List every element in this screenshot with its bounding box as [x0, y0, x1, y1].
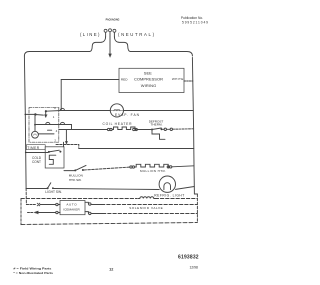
connector X [37, 203, 40, 206]
svg-text:12: 12 [109, 267, 113, 271]
terminal bump on heater-out [46, 122, 50, 124]
wire line-side from plug to left bus [24, 37, 105, 56]
cold control bellows [49, 155, 56, 164]
power cord plug prongs [104, 29, 116, 37]
wire compressor to neutral bus [184, 80, 193, 82]
wire light switch to bulb [54, 189, 159, 190]
compressor box [119, 68, 184, 92]
ground wire with arrow [109, 32, 111, 54]
motor return long wire to neutral bus [79, 148, 194, 150]
svg-text:RED: RED [121, 77, 128, 81]
svg-text:REFRIG. LIGHT: REFRIG. LIGHT [154, 194, 184, 198]
motor return row [56, 145, 79, 149]
svg-text:(LINE): (LINE) [80, 32, 100, 37]
defrost timer box [29, 107, 59, 142]
timer motor [32, 131, 39, 138]
svg-text:12/98: 12/98 [189, 266, 198, 270]
defrost therm connector circles [164, 128, 166, 130]
node bus junction [25, 114, 27, 116]
field wiring loop left vertical [20, 199, 22, 225]
wire switch to mullion heater [84, 167, 130, 170]
mullion heater element [135, 164, 170, 167]
svg-text:2: 2 [54, 106, 56, 110]
icemaker feed row upper [26, 204, 35, 206]
svg-text:HTR. SW.: HTR. SW. [69, 178, 82, 182]
connector arrow [34, 211, 39, 214]
icemaker right bracket upper [85, 202, 88, 204]
wire to defrost therm [137, 129, 150, 131]
svg-text:SEE: SEE [144, 71, 152, 76]
defrost therm sensing bracket [152, 131, 165, 140]
wire bus to cold control [26, 152, 48, 154]
timer heater-out jog [35, 125, 72, 130]
evap fan row wire [46, 110, 110, 113]
svg-text:EVAP. FAN: EVAP. FAN [115, 113, 140, 117]
left bus (line) [24, 56, 26, 188]
svg-text:COIL HEATER: COIL HEATER [103, 122, 133, 126]
solenoid row left [21, 198, 137, 200]
svg-text:THERM.: THERM. [151, 123, 163, 127]
wire to compressor box [61, 79, 119, 81]
svg-text:MULLION HTR.: MULLION HTR. [140, 169, 166, 173]
icemaker feed row lower [28, 212, 34, 214]
wire neutral-side from plug to right bus [114, 37, 192, 56]
node timer motor tap [34, 124, 36, 126]
coil heater element [112, 127, 136, 130]
icemaker terminal lower-right [89, 212, 91, 214]
evap fan motor [110, 104, 123, 117]
terminal bump on fan row [60, 108, 64, 110]
wire compressor feed drop [60, 80, 62, 111]
mullion switch row [64, 170, 75, 172]
solenoid valve coil [138, 197, 155, 199]
icemaker terminal upper-right [89, 203, 91, 205]
refrigerator light bulb [159, 176, 175, 192]
svg-text:LIGHT SW.: LIGHT SW. [45, 190, 62, 194]
pin 4 contact stub [48, 129, 52, 131]
svg-text:SOLENOID VALVE: SOLENOID VALVE [129, 206, 163, 210]
svg-text:WIRING: WIRING [141, 83, 157, 88]
defrost therm contacts [151, 129, 153, 131]
light row from bus [26, 188, 47, 190]
right bus jog to lower dashed vertical [194, 193, 197, 195]
svg-text:4: 4 [56, 129, 58, 133]
svg-text:# = Field Wiring Parts: # = Field Wiring Parts [13, 267, 51, 271]
svg-text:CONT: CONT [32, 160, 41, 164]
timer contact drop with arrow [45, 112, 47, 115]
coil heater left terminal [107, 128, 109, 130]
right lower bus dashed [196, 194, 198, 223]
mullion heater switch [74, 169, 76, 171]
svg-text:1: 1 [53, 115, 55, 119]
svg-text:ICEMAKER: ICEMAKER [63, 208, 80, 212]
svg-text:Publication No.: Publication No. [181, 16, 203, 20]
left bus lower dashed to icemaker feed [25, 188, 27, 204]
timer motor feed [34, 115, 36, 132]
auto icemaker box [60, 201, 85, 215]
node timer contact 1 [45, 110, 47, 112]
node timer common [34, 113, 36, 115]
svg-text:AUTO: AUTO [66, 202, 77, 206]
svg-text:PACKAGING: PACKAGING [106, 17, 120, 21]
cold control contacts [48, 151, 50, 153]
wire mullion heater to neutral bus [172, 166, 194, 167]
svg-text:6193832: 6193832 [178, 255, 199, 261]
icemaker terminal lower-left [56, 211, 58, 213]
svg-text:TIMER: TIMER [27, 146, 40, 150]
bottom field wiring row [21, 223, 197, 225]
svg-text:5995211049: 5995211049 [182, 21, 208, 25]
wire defrost therm to neutral bus [173, 128, 194, 130]
cold control top link [63, 142, 65, 147]
timer motor return drop with arrow [65, 130, 67, 142]
svg-text:2: 2 [54, 138, 56, 142]
svg-text:* = Non-Illustrated Parts: * = Non-Illustrated Parts [13, 271, 53, 275]
fan row wire to neutral bus [124, 110, 194, 112]
wire bulb to neutral bus [176, 187, 195, 190]
icemaker right bracket lower [85, 212, 88, 214]
coil heater right terminal [133, 128, 135, 130]
wire bus to timer common [25, 113, 35, 115]
right bus (neutral) [192, 58, 194, 195]
svg-text:COMPRESSOR: COMPRESSOR [134, 76, 163, 81]
cold control box [45, 147, 64, 168]
svg-text:WHITE: WHITE [172, 77, 184, 81]
mullion heater right terminal [167, 166, 169, 168]
timer contact blade with arrow [35, 114, 43, 117]
mullion heater left terminal [130, 166, 132, 168]
light switch [47, 187, 49, 189]
timer motor output [38, 133, 54, 135]
node bus junction cold [25, 152, 27, 154]
icemaker terminal upper-left [56, 203, 58, 205]
label TIMER [27, 145, 46, 150]
coil heater row wire [59, 129, 108, 131]
svg-text:(NEUTRAL): (NEUTRAL) [118, 32, 155, 37]
wire solenoid to right bus [155, 198, 197, 200]
